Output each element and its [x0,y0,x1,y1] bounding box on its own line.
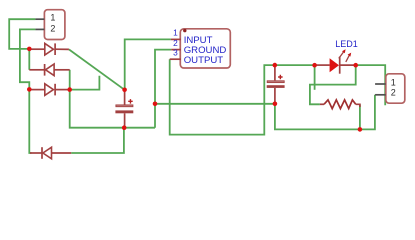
wire node C down to D4 [29,90,31,153]
wire diagonal D1 cathode to C1 top node [69,49,125,89]
junction ground tee node [153,102,158,107]
wire output rail from LED cathode node to J2 pin1 [356,65,386,105]
wire node B right with dead-end stub up [70,76,100,90]
svg-text:2: 2 [173,38,178,48]
capacitor C2 top plate [267,81,284,83]
diode D3 anode lead [29,89,45,91]
IC U1 pin 2 stub [171,49,181,51]
wire C2 bottom node down and right to J2 pin2 riser [275,95,375,130]
LED1 anode lead [315,64,330,66]
wire net2 from J1 pin2 jog down to node C [20,29,36,88]
connector J1 pin 1 stub [35,18,44,20]
diode D2 cathode lead [29,69,44,71]
diode D4 cathode bar [41,147,43,159]
diode D3 cathode lead [55,89,69,91]
svg-text:3: 3 [173,47,178,57]
wire resistor right lead down to bottom bus [359,105,361,130]
wire C1 top node up and right to IC pin1 INPUT [125,39,171,89]
diode D2 cathode bar [44,64,46,76]
IC U1 voltage regulator box [180,29,230,68]
capacitor C1 bottom plate [115,110,133,113]
diode D1 triangle [45,43,54,55]
junction node C [27,87,32,92]
connector J2 pin 2 stub [375,94,386,96]
capacitor C1 top lead [124,90,126,105]
diode D4 triangle [43,147,52,159]
wire IC pin2 GROUND left then down to bus [155,50,171,128]
junction LED cathode node [353,63,358,68]
svg-text:2: 2 [50,23,55,33]
junction node B [67,87,72,92]
diode D3 triangle [45,84,54,96]
diode D4 anode lead [52,152,72,154]
diode D1 anode lead [29,48,45,50]
LED1 emission arrow 1 [339,49,346,58]
resistor R1 left lead [320,103,324,105]
wire net1 from J1 pin1 to node A [9,19,35,49]
capacitor C2 plus sign [278,75,283,80]
diode D3 cathode bar [54,84,56,96]
LED1 cathode bar [339,57,341,74]
junction LED anode node [312,63,317,68]
connector J2 pin 1 stub [375,83,386,85]
svg-text:OUTPUT: OUTPUT [184,55,224,66]
junction C2 bottom node [273,102,278,107]
svg-text:LED1: LED1 [335,39,358,49]
capacitor C2 bottom plate [267,85,285,88]
diode D4 cathode lead [30,152,42,154]
wire D2 anode down to node B [69,70,71,90]
wire node B down to bus and right to pin2 riser [70,90,155,128]
LED1 triangle [330,58,339,72]
wire node A down to D2 cathode lead [28,50,30,70]
wire IC pin3 OUTPUT down right and up to output rail [170,59,315,134]
wire ground horizontal from pin2 riser to C2 bottom [155,103,275,105]
diode D2 anode lead [54,69,70,71]
svg-text:1: 1 [391,78,396,88]
wire LED anode node stub down dead-end [314,65,316,90]
LED1 emission arrow 2 [346,53,351,62]
IC U1 origin dot [183,29,186,32]
junction C1 bottom bus node [122,125,127,130]
wire LED cathode node down and left to resistor feed [310,65,356,104]
resistor R1 zigzag [324,100,356,109]
capacitor C1 plus sign [128,99,133,104]
LED1 cathode lead [340,64,356,66]
capacitor C1 top plate [116,105,133,107]
svg-text:1: 1 [173,28,178,38]
junction C1 top node [122,88,127,93]
svg-text:1: 1 [50,12,55,22]
junction node A [27,47,32,52]
capacitor C1 bottom lead [124,113,126,127]
diode D1 cathode bar [54,43,56,55]
resistor R1 right lead [356,104,360,107]
capacitor C2 bottom lead [274,88,276,104]
connector J1 box [44,10,65,40]
connector J1 pin 2 stub [35,28,44,30]
wire D4 anode right and riser up to bus junction [71,129,124,154]
junction C2 top node [273,63,278,68]
connector J2 box [386,74,405,103]
svg-text:2: 2 [391,87,396,97]
diode D2 triangle [46,64,55,76]
capacitor C2 top lead [274,65,276,80]
junction resistor bottom node [358,127,363,132]
IC U1 pin 3 stub [170,58,181,60]
IC U1 pin 1 stub [171,38,181,40]
diode D1 cathode lead [55,48,69,50]
